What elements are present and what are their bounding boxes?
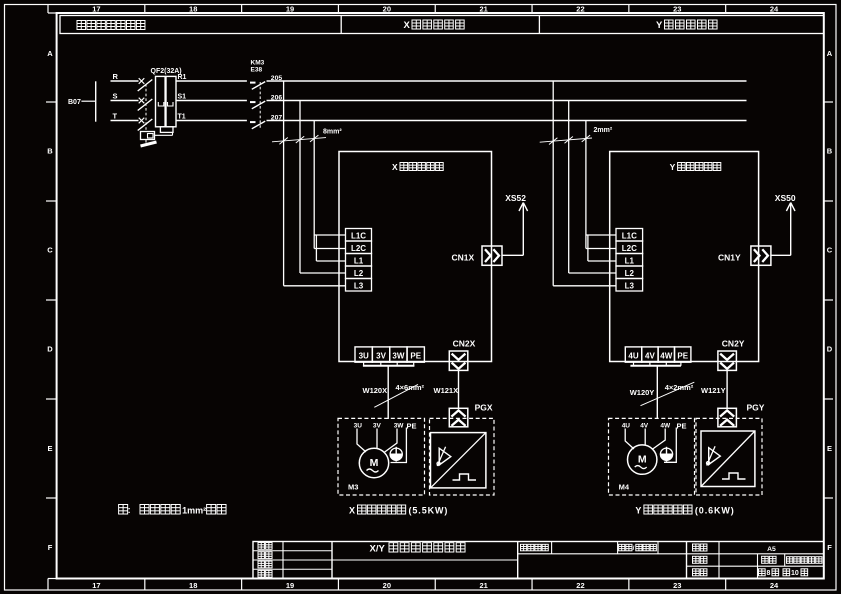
svg-text:W120Y: W120Y [630,388,655,397]
svg-text:4V: 4V [640,422,649,429]
svg-text:206: 206 [271,95,283,102]
svg-text:CN1X: CN1X [452,253,475,263]
svg-text:E: E [827,444,832,453]
svg-text:3U: 3U [354,422,363,429]
svg-text:R: R [113,72,119,81]
wire drop 205 to X drive L3 [284,81,346,286]
wire CN1X to XS52 [502,204,523,256]
svg-text:22: 22 [576,581,584,590]
cable marker 8mm2 on X drive feed [272,129,342,145]
wire R phase [111,72,139,81]
connector PGY [718,403,765,427]
Y drive terminals L1C L2C L1 L2 L3 [616,229,643,292]
svg-text:22: 22 [576,4,584,13]
svg-text:S1: S1 [178,94,187,101]
Y axis servo drive unit [610,152,759,362]
motor M3 (circle M~) [359,448,388,477]
wire drop 206 to Y drive L2 [569,101,616,274]
connector CN1Y [718,246,771,265]
wire R1 [176,74,247,81]
svg-text:T1: T1 [178,114,186,121]
svg-text:X: X [392,162,398,172]
svg-text:XS52: XS52 [505,193,526,203]
svg-text:Y: Y [635,506,641,516]
connector CN2Y [718,339,745,371]
svg-text:PE: PE [407,422,417,431]
svg-text:B: B [47,146,53,155]
wire branch to Y drive L1 [588,235,616,261]
encoder PGY symbol [701,431,755,487]
svg-text:20: 20 [383,4,391,13]
connector XS52 off-sheet arrow [505,193,527,211]
svg-text:Y: Y [656,20,663,31]
svg-text:W121X: W121X [434,386,459,395]
svg-text:L2: L2 [625,269,635,278]
svg-text:17: 17 [92,581,100,590]
svg-text:18: 18 [189,581,197,590]
svg-text:L1: L1 [354,257,364,266]
svg-text:17: 17 [92,4,100,13]
svg-text:M3: M3 [348,483,358,492]
svg-text:3W: 3W [392,351,404,360]
svg-text:1mm²: 1mm² [182,506,206,516]
svg-text:A: A [47,49,53,58]
svg-text:23: 23 [673,581,681,590]
svg-text:D: D [827,344,833,353]
svg-text:PE: PE [677,422,687,431]
svg-text:24: 24 [770,581,779,590]
ground of QF2 trip unit [141,140,157,147]
wire drop 207 to X drive L2C [314,121,345,249]
svg-text:W120X: W120X [363,386,388,395]
wire S phase [111,92,139,101]
svg-text:4W: 4W [660,351,672,360]
svg-text:L1C: L1C [351,232,366,241]
cable marker 4x2mm2 W120Y [641,382,695,406]
wire W121X encoder cable [434,370,459,408]
cable marker 4x6mm2 W120X [374,383,424,407]
svg-text:B07: B07 [68,99,81,106]
svg-text:M: M [370,457,379,469]
svg-text:4U: 4U [628,351,638,360]
svg-text:L2C: L2C [351,244,366,253]
connector CN2X [449,339,475,371]
net label: servo transformer output header [77,21,86,30]
svg-text:PGX: PGX [475,403,493,413]
svg-text:21: 21 [479,581,487,590]
wire branch to Y drive L1C [586,234,616,236]
svg-text:4W: 4W [660,422,671,429]
label X servo motor 5.5KW [349,505,448,516]
svg-text:3U: 3U [359,351,369,360]
svg-text:205: 205 [271,75,283,82]
wire S1 [176,94,247,101]
cable marker 2mm2 on Y drive feed [540,127,613,145]
svg-text:(5.5KW): (5.5KW) [409,506,449,516]
connector XS50 off-sheet arrow [775,193,796,211]
ground symbol on M3 frame [390,447,402,462]
svg-text:3W: 3W [394,422,405,429]
svg-text:B: B [827,146,833,155]
svg-text:L1C: L1C [622,232,637,241]
X servo motor M3 enclosure [338,418,425,495]
encoder of M4 enclosure [696,418,762,495]
wire drop 207 to Y drive L2C [586,121,616,249]
svg-text:23: 23 [673,4,681,13]
svg-text:C: C [47,245,53,254]
wire CN1Y to XS50 [771,204,791,256]
wire 205 [267,75,747,82]
svg-text:4V: 4V [645,351,655,360]
connector PGX [449,403,493,427]
svg-text:CN1Y: CN1Y [718,253,741,263]
wire motor leads 4U 4V 4W [625,429,665,450]
wire PE lead to motor frame ground [391,428,407,463]
wire 207 [267,115,747,122]
svg-text:2mm²: 2mm² [594,127,613,134]
wire drop 205 to Y drive L3 [553,81,616,286]
wire cable W120X from X drive to motor M3 [363,362,415,419]
svg-text:C: C [827,245,833,254]
svg-text:D: D [47,344,53,353]
X drive output terminals 3U 3V 3W PE [355,347,424,362]
label Y servo motor 0.6KW [635,505,734,516]
wire PE lead to motor frame ground [664,428,676,463]
svg-text:CN2Y: CN2Y [722,339,745,349]
svg-text:A: A [827,49,833,58]
contactor KM3 E38 main contacts [250,60,265,130]
svg-text:L3: L3 [625,282,635,291]
svg-text:L1: L1 [625,257,635,266]
connector B07 incoming supply [68,81,96,121]
svg-text:21: 21 [479,4,487,13]
svg-text:L2C: L2C [622,244,637,253]
svg-text:20: 20 [383,581,391,590]
svg-text:PE: PE [677,351,688,360]
svg-text:X/Y: X/Y [370,544,386,555]
svg-text::: : [128,505,131,515]
svg-text:19: 19 [286,4,294,13]
svg-text:XS50: XS50 [775,193,796,203]
svg-text:E: E [47,444,52,453]
svg-text:PGY: PGY [747,403,765,413]
svg-text:3V: 3V [376,351,386,360]
encoder of M3 enclosure [430,418,495,495]
motor M4 (circle M~) [628,445,657,474]
svg-text:F: F [827,543,832,552]
svg-text:207: 207 [271,115,283,122]
Y servo motor M4 enclosure [609,418,695,495]
circuit breaker QF2 (32A) [138,68,182,140]
svg-text:W121Y: W121Y [701,386,726,395]
svg-text:(0.6KW): (0.6KW) [695,506,735,516]
svg-text:Y: Y [670,162,676,172]
svg-text:CN2X: CN2X [453,339,476,349]
svg-text:L3: L3 [354,282,364,291]
encoder PGX symbol [431,433,486,488]
svg-text:4U: 4U [622,422,631,429]
svg-text:PE: PE [410,351,421,360]
wire T phase [111,112,139,121]
Y drive output terminals 4U 4V 4W PE [625,347,691,362]
svg-text:3V: 3V [373,422,382,429]
wire branch to X drive L1 [316,235,345,261]
connector CN1X [452,246,503,265]
svg-text:F: F [48,543,53,552]
wire cable W120Y from Y drive to motor M4 [630,362,681,419]
svg-text:/: / [633,545,635,552]
svg-text:L2: L2 [354,269,364,278]
wire 206 [267,95,747,102]
note: remaining wire gauge 1mm2 or above [119,505,226,516]
svg-text:M: M [638,454,647,466]
svg-text:4×6mm²: 4×6mm² [396,383,425,392]
svg-text:24: 24 [770,4,779,13]
wire drop 206 to X drive L2 [300,101,346,274]
svg-text:19: 19 [286,581,294,590]
svg-text:R1: R1 [178,74,187,81]
svg-text:10: 10 [791,570,799,577]
wire W121Y encoder cable [701,370,727,408]
svg-text:18: 18 [189,4,197,13]
ground symbol on M4 frame [660,447,672,462]
svg-text:KM3: KM3 [251,60,265,67]
svg-text:8: 8 [767,570,771,577]
svg-text:A5: A5 [767,546,776,553]
X drive terminals L1C L2C L1 L2 L3 [346,229,372,292]
wire T1 [176,114,247,121]
wire branch to X drive L1C [314,234,345,236]
wire motor leads 3U 3V 3W [357,429,397,453]
svg-text:M4: M4 [619,483,630,492]
X axis servo drive unit [339,152,492,362]
svg-text:S: S [113,92,118,101]
svg-text:X: X [349,506,355,516]
svg-text:E38: E38 [251,67,263,74]
svg-text:T: T [113,112,118,121]
svg-text:X: X [404,20,411,31]
svg-text:8mm²: 8mm² [323,129,342,136]
svg-text:4×2mm²: 4×2mm² [665,383,694,392]
